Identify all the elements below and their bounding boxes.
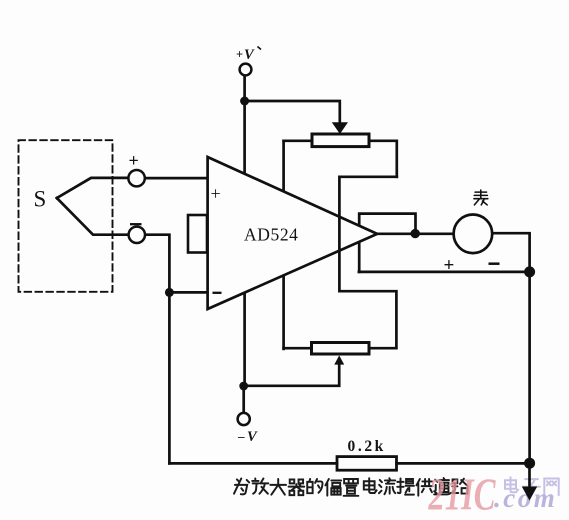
svg-text:AD524: AD524 xyxy=(244,225,299,245)
svg-text:S: S xyxy=(34,187,47,212)
svg-text:V: V xyxy=(244,47,255,63)
svg-text:+: + xyxy=(236,48,243,62)
svg-text:21IC: 21IC xyxy=(428,470,496,520)
svg-text:0.2k: 0.2k xyxy=(348,438,386,455)
svg-text:+: + xyxy=(211,183,221,203)
svg-text:+: + xyxy=(129,151,139,171)
svg-text:V: V xyxy=(247,429,258,445)
svg-text:–: – xyxy=(237,429,245,444)
svg-text:+: + xyxy=(444,255,455,276)
